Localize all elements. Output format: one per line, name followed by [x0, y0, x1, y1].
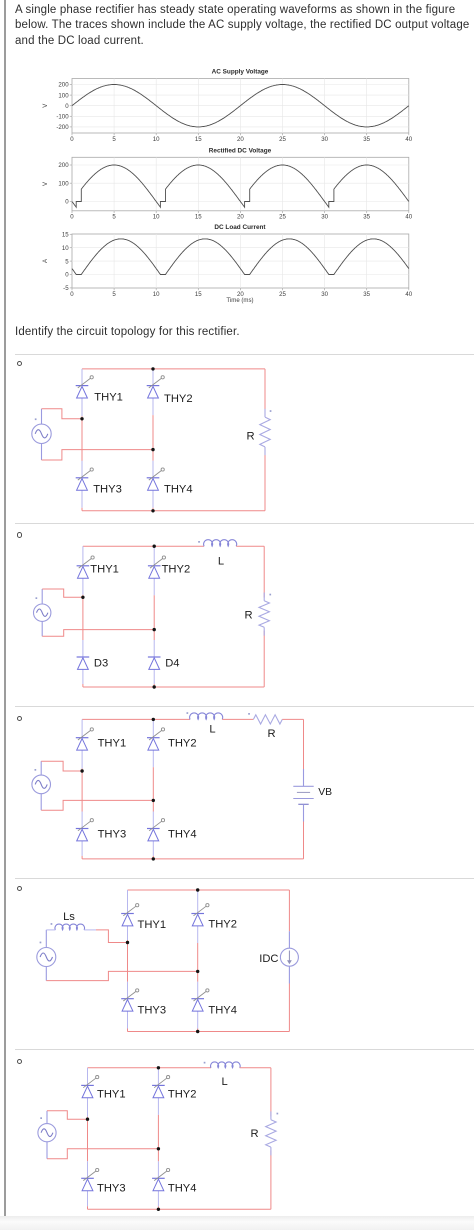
wire source top to bridge — [47, 1111, 88, 1119]
thyristor THY1 — [81, 1076, 125, 1101]
svg-text:THY4: THY4 — [208, 1004, 237, 1016]
svg-text:THY3: THY3 — [93, 484, 122, 496]
wire source top to bridge — [42, 409, 83, 419]
AC source V1 — [32, 409, 51, 460]
wire source bottom to bridge — [46, 971, 197, 980]
node: right mid — [157, 1147, 160, 1150]
svg-text:THY4: THY4 — [164, 484, 193, 496]
AC source V1 — [38, 1111, 56, 1159]
wire right leg — [157, 1068, 159, 1086]
wire bottom rail — [83, 686, 264, 688]
wire R to corner — [282, 718, 303, 720]
node: top rail / THY2 — [153, 545, 156, 548]
svg-text:15: 15 — [62, 232, 69, 239]
node: top rail / THY2 — [157, 1066, 160, 1069]
svg-text:V: V — [42, 181, 49, 186]
thyristor THY2 — [147, 376, 193, 405]
svg-text:0: 0 — [65, 272, 69, 279]
svg-text:DC Load Current: DC Load Current — [214, 224, 266, 231]
node: left mid — [126, 941, 129, 944]
separator 1 — [15, 354, 474, 355]
svg-text:Ls: Ls — [63, 911, 75, 923]
svg-text:IDC: IDC — [259, 953, 278, 965]
node: bottom rail / THY4 — [151, 509, 154, 512]
svg-text:THY2: THY2 — [164, 393, 193, 405]
svg-text:15: 15 — [195, 291, 202, 298]
trace: rectified DC voltage — [72, 165, 409, 207]
svg-text:20: 20 — [237, 136, 244, 143]
wire source bottom to bridge — [47, 1149, 158, 1159]
wire bottom rail — [88, 1208, 271, 1210]
svg-text:100: 100 — [58, 92, 69, 99]
inductor L — [204, 1062, 240, 1088]
svg-text:100: 100 — [58, 180, 69, 187]
svg-text:5: 5 — [65, 258, 69, 265]
wire source top to bridge — [42, 589, 83, 597]
svg-text:200: 200 — [58, 82, 69, 89]
wire top rail — [128, 889, 290, 891]
svg-text:L: L — [221, 1076, 227, 1088]
svg-text:THY1: THY1 — [138, 919, 167, 931]
separator 5 — [15, 1049, 474, 1050]
svg-text:VB: VB — [318, 787, 332, 798]
trace: DC load current — [72, 239, 409, 275]
svg-text:Time (ms): Time (ms) — [226, 297, 253, 304]
svg-text:10: 10 — [153, 214, 160, 221]
svg-text:THY3: THY3 — [97, 1182, 126, 1194]
plot axes: Rectified DC Voltage — [58, 147, 412, 220]
svg-text:0: 0 — [70, 136, 74, 143]
svg-text:40: 40 — [405, 214, 412, 221]
svg-text:R: R — [250, 1128, 258, 1140]
radio option 2 — [17, 532, 22, 537]
node: left mid — [80, 769, 83, 772]
wire left leg — [82, 546, 84, 566]
svg-text:0: 0 — [65, 103, 69, 110]
svg-text:0: 0 — [70, 291, 74, 298]
svg-text:THY1: THY1 — [90, 563, 119, 575]
wire bottom rail — [82, 858, 303, 860]
separator 4 — [15, 878, 474, 879]
wire left leg — [81, 719, 83, 737]
thyristor THY1 — [121, 904, 166, 931]
svg-text:THY3: THY3 — [138, 1004, 167, 1016]
wire source bottom to bridge — [42, 630, 154, 637]
svg-text:10: 10 — [153, 291, 160, 298]
current source IDC — [259, 890, 298, 1032]
wire bottom rail — [128, 1031, 290, 1033]
thyristor THY1 — [76, 728, 126, 750]
thyristor THY4 — [152, 1168, 196, 1194]
wire top rail — [82, 718, 190, 720]
svg-text:R: R — [267, 728, 275, 740]
svg-text:-200: -200 — [56, 124, 69, 131]
svg-text:THY2: THY2 — [168, 738, 197, 750]
inductor L — [198, 540, 236, 568]
node: right mid — [153, 628, 156, 631]
svg-text:THY1: THY1 — [94, 391, 123, 403]
plot axes: DC Load Current — [62, 224, 413, 298]
svg-text:THY2: THY2 — [208, 918, 237, 930]
svg-text:10: 10 — [153, 136, 160, 143]
wire left leg — [81, 369, 83, 386]
waveform figure — [0, 58, 474, 308]
svg-text:25: 25 — [279, 291, 286, 298]
node: top rail / THY2 — [151, 367, 154, 370]
wire source top to bridge — [41, 761, 82, 771]
svg-text:200: 200 — [58, 162, 69, 169]
resistor R — [244, 593, 271, 636]
node: bottom rail / D4 — [153, 685, 156, 688]
wire left leg — [87, 1068, 89, 1086]
svg-text:D4: D4 — [165, 657, 179, 669]
svg-text:10: 10 — [62, 245, 69, 252]
svg-text:L: L — [218, 556, 224, 568]
thyristor THY2 — [148, 556, 190, 578]
wire load leg — [264, 369, 266, 414]
svg-text:THY1: THY1 — [98, 738, 127, 750]
node: top rail / THY2 — [196, 888, 199, 891]
wire bottom rail — [82, 510, 265, 512]
inductor Ls — [51, 911, 85, 930]
radio option 4 — [17, 886, 22, 891]
svg-text:L: L — [209, 723, 215, 735]
svg-text:V: V — [42, 103, 49, 108]
svg-text:30: 30 — [321, 136, 328, 143]
svg-text:R: R — [244, 610, 252, 622]
node: left mid — [81, 596, 84, 599]
svg-text:THY1: THY1 — [97, 1089, 126, 1101]
thyristor THY1 — [77, 556, 119, 578]
thyristor THY2 — [191, 904, 237, 931]
AC source V1 — [34, 589, 51, 636]
svg-text:35: 35 — [363, 291, 370, 298]
svg-text:0: 0 — [70, 214, 74, 221]
circuit option 4: bridge with source inductance Ls and current source IDC — [0, 880, 474, 1048]
svg-text:THY3: THY3 — [98, 828, 127, 840]
node: right mid — [152, 799, 155, 802]
thyristor THY1 — [76, 376, 123, 404]
thyristor THY2 — [147, 728, 197, 750]
battery VB — [293, 719, 332, 859]
svg-text:40: 40 — [405, 291, 412, 298]
circuit option 5: thyristor bridge with L and R — [0, 1052, 474, 1214]
svg-text:-5: -5 — [63, 285, 69, 292]
svg-text:THY2: THY2 — [162, 563, 191, 575]
svg-text:35: 35 — [363, 136, 370, 143]
node: bottom rail / THY4 — [152, 857, 155, 860]
wire right leg — [153, 546, 155, 566]
AC source V1 — [32, 761, 51, 810]
svg-text:5: 5 — [112, 136, 116, 143]
wire right leg — [152, 719, 154, 737]
svg-text:30: 30 — [321, 214, 328, 221]
thyristor THY4 — [147, 468, 193, 496]
node: left mid — [86, 1118, 89, 1121]
svg-text:Rectified DC Voltage: Rectified DC Voltage — [209, 147, 272, 154]
wire Ls to bridge — [46, 929, 55, 931]
wire top rail right — [240, 1067, 271, 1069]
diode D4 — [148, 657, 180, 669]
svg-text:A: A — [42, 258, 49, 263]
svg-text:5: 5 — [112, 291, 116, 298]
wire source bottom to bridge — [41, 800, 153, 810]
left page border — [4, 0, 6, 1217]
svg-text:THY4: THY4 — [168, 1182, 197, 1194]
svg-text:D3: D3 — [94, 657, 108, 669]
question text — [15, 3, 470, 49]
svg-text:25: 25 — [279, 214, 286, 221]
svg-text:-100: -100 — [56, 114, 69, 121]
bottom grey band — [0, 1216, 474, 1230]
svg-text:30: 30 — [321, 291, 328, 298]
thyristor THY3 — [81, 1168, 125, 1194]
resistor R — [248, 713, 282, 740]
circuit option 1: thyristor bridge with R load — [0, 356, 474, 524]
svg-text:0: 0 — [65, 199, 69, 206]
wire top rail right — [236, 545, 264, 547]
svg-text:AC Supply Voltage: AC Supply Voltage — [212, 69, 269, 76]
wire top rail — [88, 1067, 212, 1069]
radio option 3 — [17, 716, 22, 721]
wire load leg — [270, 1068, 272, 1117]
resistor R — [246, 409, 271, 455]
svg-text:35: 35 — [363, 214, 370, 221]
wire top rail — [83, 545, 204, 547]
svg-text:15: 15 — [195, 214, 202, 221]
circuit option 2: semi-controlled bridge with L and R — [0, 528, 474, 700]
svg-text:THY4: THY4 — [168, 828, 197, 840]
node: right mid — [196, 970, 199, 973]
circuit option 3: thyristor bridge with L, R and battery VB — [0, 708, 474, 880]
svg-text:20: 20 — [237, 214, 244, 221]
thyristor THY4 — [147, 819, 197, 841]
svg-text:40: 40 — [405, 136, 412, 143]
diode D3 — [77, 657, 109, 669]
thyristor THY2 — [152, 1076, 196, 1101]
wire right leg — [197, 890, 199, 914]
thyristor THY3 — [121, 989, 166, 1016]
svg-text:25: 25 — [279, 136, 286, 143]
thyristor THY3 — [76, 819, 126, 841]
inductor L — [187, 712, 223, 735]
node: bottom rail / THY4 — [157, 1208, 160, 1211]
svg-text:5: 5 — [112, 214, 116, 221]
node: top rail / THY2 — [152, 718, 155, 721]
svg-text:15: 15 — [195, 136, 202, 143]
wire right leg — [152, 369, 154, 386]
thyristor THY4 — [191, 989, 237, 1016]
thyristor THY3 — [76, 468, 122, 496]
plot axes: AC Supply Voltage — [56, 69, 412, 143]
node: bottom rail / THY4 — [196, 1030, 199, 1033]
AC source V1 — [37, 930, 56, 981]
trace: AC supply sine — [72, 85, 409, 127]
node: left mid — [80, 417, 83, 420]
wire left leg — [127, 890, 129, 914]
separator 3 — [15, 706, 474, 707]
svg-text:THY2: THY2 — [168, 1089, 197, 1101]
svg-text:R: R — [246, 431, 254, 443]
radio option 5 — [17, 1059, 22, 1064]
radio option 1 — [17, 361, 22, 366]
separator 2 — [15, 523, 474, 524]
resistor R — [250, 1111, 278, 1155]
wire source bottom to bridge — [42, 450, 154, 460]
wire load leg — [263, 546, 265, 597]
wire between L and R — [222, 718, 253, 720]
wire top rail — [82, 368, 265, 370]
node: right mid — [151, 448, 154, 451]
